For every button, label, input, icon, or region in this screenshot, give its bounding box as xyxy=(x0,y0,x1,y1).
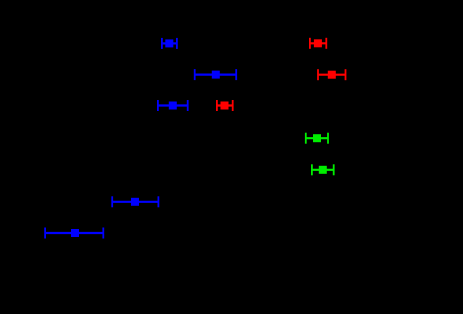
data point 9: blue measurement, row 6, error bar with caps xyxy=(112,196,159,207)
data point 6: red measurement, row 3, error bar with caps xyxy=(217,100,233,111)
data point 2: red measurement, row 1, error bar with caps xyxy=(310,38,327,49)
data point 5: blue measurement, row 3, error bar with caps xyxy=(158,100,188,111)
data point 3: blue measurement, row 2, error bar with caps xyxy=(194,69,236,80)
data point 10: blue measurement, row 7, error bar with caps xyxy=(45,228,104,239)
data point 8: green measurement, row 5, error bar with caps xyxy=(312,164,334,175)
data point 7: green measurement, row 4, error bar with caps xyxy=(306,133,329,144)
data point 4: red measurement, row 2, error bar with caps xyxy=(318,69,346,80)
data point 1: blue measurement, row 1, error bar with caps xyxy=(162,38,178,49)
